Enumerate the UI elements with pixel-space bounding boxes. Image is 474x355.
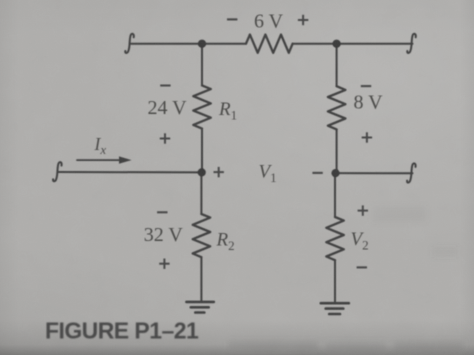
ground (left) <box>186 302 213 313</box>
wire: 8V bottom to middle-right junction <box>336 129 338 173</box>
label: minus sign of 24V <box>160 85 170 87</box>
node: top-left junction <box>198 40 206 48</box>
node: middle-right junction (V1 -) <box>331 169 339 177</box>
wire: top horizontal left segment <box>131 43 246 45</box>
caption: FIGURE P1-21 <box>45 318 199 344</box>
wire: left branch, top junction to R1 <box>201 44 203 86</box>
resistor R2 (vertical zigzag) <box>193 214 211 257</box>
arrow for current Ix <box>77 156 132 163</box>
label: minus sign of 32V <box>157 211 167 213</box>
label: minus sign of 6V <box>227 18 237 20</box>
wire: middle horizontal left segment <box>58 171 202 173</box>
label: minus sign of V1 <box>312 172 322 174</box>
faint show-through smudges (page ghosting) <box>228 206 464 351</box>
label: plus sign of 24V <box>160 133 170 143</box>
resistor 6V (horizontal zigzag) <box>246 35 293 53</box>
wire break squiggle: top-right terminal <box>407 34 416 53</box>
wire: R1 bottom to middle-left junction <box>201 129 203 173</box>
wire: middle-left junction down to R2 <box>200 172 202 214</box>
ground (right) <box>321 303 349 314</box>
label: plus sign of V2 <box>358 205 368 215</box>
wire: middle-right junction down to V2 resistor <box>334 173 336 217</box>
resistor R1 (vertical zigzag) <box>193 85 211 128</box>
label: minus sign of 8V <box>361 85 371 87</box>
resistor V2 (vertical zigzag) <box>326 217 344 260</box>
label: minus sign of V2 <box>357 266 367 268</box>
wire: top horizontal right segment <box>293 43 413 45</box>
wire: middle horizontal right segment <box>336 172 413 174</box>
node: middle-left junction (V1 +) <box>198 168 206 176</box>
resistor 8V (vertical zigzag) <box>328 86 346 129</box>
wire break squiggle: top-left terminal <box>125 34 134 53</box>
label: plus sign of 6V <box>298 15 308 25</box>
label: plus sign of 32V <box>159 259 169 269</box>
label: plus sign of V1 <box>214 167 224 177</box>
wire: R2 bottom to left ground <box>200 257 202 301</box>
node: top-right junction <box>333 40 341 48</box>
wire break squiggle: middle-right terminal <box>407 163 416 182</box>
wire break squiggle: middle-left terminal <box>53 162 62 181</box>
label: plus sign of 8V <box>362 132 372 142</box>
wire: right branch, top junction to 8V resistor <box>336 44 338 86</box>
wire: V2 bottom to right ground <box>334 260 336 302</box>
